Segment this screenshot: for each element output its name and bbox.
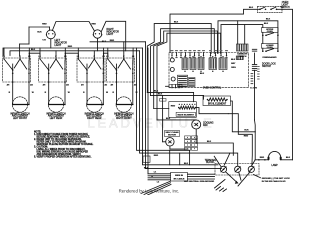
svg-text:DISENGAGED: DISENGAGED [263,56,277,59]
svg-text:W: W [106,92,108,94]
svg-text:GRY: GRY [231,63,236,65]
svg-text:BLK: BLK [31,49,36,51]
wire: riser [28,48,30,56]
wire: S3 to element [86,82,88,105]
svg-text:Y-R: Y-R [42,39,46,41]
pilot circle P3 [171,77,175,81]
svg-text:BLK: BLK [200,73,205,75]
svg-text:RED: RED [154,155,159,157]
lamp: left indicator light [46,30,55,39]
wire: sabbath feed 1 [237,21,239,44]
wire: feed 2 [140,51,238,166]
wire: to cooling fan [157,119,196,121]
svg-text:4G: 4G [104,83,107,86]
svg-text:RED: RED [110,40,115,42]
svg-text:W: W [32,92,34,94]
connector: jumper above box bottom [169,85,182,88]
wire: riser [64,48,66,56]
terminal block (dashed) [215,164,259,176]
wire: riser [93,51,95,56]
svg-text:5. VERIFY PROPER OPERATION AFT: 5. VERIFY PROPER OPERATION AFTER SERVICI… [34,155,92,158]
svg-text:BROIL ELEMENT: BROIL ELEMENT [208,103,227,105]
infinite switch S2 (dashed box) [39,58,67,82]
switch contacts S1 [3,56,5,59]
svg-text:LEFT FRONT: LEFT FRONT [13,118,28,120]
wire: fan to terminal block [196,129,233,155]
wire: cable strand [148,179,171,181]
oven control (dashed box) [169,53,249,88]
pilot circle P1 [170,58,174,62]
wire: fuse chain tail [254,120,257,132]
svg-text:LAMP: LAMP [271,164,278,167]
svg-text:RED: RED [42,24,47,26]
wire: riser [132,48,134,56]
wire: S2 to element [48,82,50,105]
svg-text:4G: 4G [30,83,33,86]
svg-text:WIRE IN: WIRE IN [175,175,184,177]
wire: fuse chain down [254,70,256,120]
cable arrows to ground [226,172,236,182]
wire: lamp2 down to bus [97,39,99,51]
feed diag to lug 1 [224,153,230,165]
svg-text:RED: RED [244,135,249,137]
wire: feed 4 [146,42,222,169]
wire: feed 3 [143,48,219,165]
svg-text:BLK: BLK [249,7,254,9]
surface element E2 (dashed circle) [48,97,63,112]
svg-text:LIGHT: LIGHT [107,34,114,36]
connector: sabbath [237,44,249,51]
wire: S4 to element [116,82,118,105]
svg-text:4G: 4G [66,83,69,86]
terminal id row [171,57,173,58]
door motor M1 [166,138,174,146]
svg-text:W: W [68,92,70,94]
svg-text:OVEN CONTROL: OVEN CONTROL [203,88,222,90]
svg-text:BLK: BLK [184,163,189,165]
wire: loop 3 [151,29,215,96]
box: lower oven [262,44,279,49]
wire: route to terminal block [228,114,252,166]
door lock switch upper [262,35,264,37]
svg-text:OVEN: OVEN [267,31,273,33]
switch contacts S4 [107,56,109,59]
oven lamp DS1 [251,160,255,166]
surface element E4 (dashed circle) [116,97,131,112]
box: wire in BK cable [171,173,188,182]
terminal lug [248,166,254,172]
infinite switch S1 (dashed box) [3,58,31,82]
surface element E1 (dashed circle) [12,97,27,112]
switch contacts S3 [77,56,79,59]
wire: to terminal block [188,178,215,180]
connector: mini block [143,156,150,162]
svg-text:BLK: BLK [207,141,212,143]
switch: oven light switch [258,6,283,12]
wire: riser [77,48,79,56]
infinite switch S4 (dashed box) [107,58,135,82]
wire: cable strand [148,177,171,179]
svg-text:WHT-NEUTRAL GRN-GROUND: WHT-NEUTRAL GRN-GROUND [184,180,215,183]
svg-text:IN THE BX CABLE N GD: IN THE BX CABLE N GD [262,180,286,183]
wire: bake right route [196,108,228,114]
svg-text:BLK: BLK [158,93,163,95]
svg-text:BLK: BLK [264,23,269,25]
box: self clean label [165,131,180,137]
switch contacts S2 [39,56,41,59]
svg-text:SWITCH: SWITCH [262,66,271,68]
wire: bus A [3,48,143,56]
wire: riser [103,48,105,56]
wire: sabbath feed 2 [244,25,246,44]
connector J1 [178,75,188,86]
wire: S1 to element [12,82,14,105]
svg-text:BLK: BLK [266,19,271,21]
wire: motor left [163,141,166,143]
wire: left indicator feed [29,26,50,28]
wire: bus B [10,51,140,56]
svg-text:BLK: BLK [244,129,249,131]
wire: right edge drop [282,9,293,160]
wire: down to lamp row [254,132,256,160]
wire: cable strand [148,175,171,177]
wire: vertical feed [162,95,164,141]
svg-text:BLK: BLK [144,167,149,169]
wire: to terminal block [188,173,215,175]
lamp: right indicator light [93,30,101,38]
wire: loop to door lock left [221,25,263,54]
infinite switch S3 (dashed box) [77,58,105,82]
svg-text:BLK: BLK [174,21,179,23]
wire: loop 4 [154,31,218,109]
cable bundle [141,181,171,193]
broil element R2 [203,96,231,106]
wire: link to lower [262,35,264,43]
connector stack Q1 [185,136,191,139]
wire: motor bottom [170,146,188,149]
wire: riser [3,48,5,56]
wire: drop [179,153,181,165]
svg-text:BLK: BLK [286,157,291,159]
wire: outer loop to oven light switch [170,9,257,52]
thermal fuse chain [254,53,256,64]
box: upper oven assembly [262,28,279,33]
door lock switch [262,50,264,52]
wire: control to broil [151,95,204,99]
terminal lug [220,166,226,172]
svg-text:LEADVENTURE: LEADVENTURE [88,116,215,131]
relay blocks K1-K6 [182,58,188,70]
chassis ground [215,180,226,189]
wire: to terminal block [188,176,215,178]
wire: broil right route [231,101,256,132]
wire: upper-lower link right [277,35,279,50]
svg-text:ORG: ORG [231,67,236,69]
wire: riser [55,51,57,56]
svg-text:LIGHT: LIGHT [55,45,62,47]
wire: loop 2 [147,24,211,93]
svg-text:MOTOR: MOTOR [168,135,176,137]
svg-text:BLOCK-: BLOCK- [206,162,215,164]
svg-text:Rendered by LeadVenture, Inc.: Rendered by LeadVenture, Inc. [119,189,180,194]
cooling fan M2 [192,120,201,129]
control board terminals [171,53,173,57]
bake element R1 [169,102,197,118]
svg-text:RED: RED [260,157,265,159]
svg-text:BLK: BLK [37,32,42,34]
wire: feed 1 [137,48,190,165]
wire: riser [123,42,125,56]
wire: lamp1 down to bus [50,39,52,48]
connector J3 [236,56,243,60]
svg-text:BLK: BLK [154,91,159,93]
box: grn tag [160,99,166,102]
surface element E3 (dashed circle) [87,97,102,112]
svg-text:RED: RED [68,46,73,48]
svg-text:RED: RED [171,105,176,107]
wire: loop to door lock right [218,21,278,54]
svg-text:SWITCH: SWITCH [280,7,289,9]
terminal lug [235,166,241,172]
wire: control to bake [154,108,169,110]
connector J2 [189,78,196,87]
svg-text:RED: RED [92,24,97,26]
wire: lamp2 output to bus drop [101,21,125,51]
svg-text:SWITCH: SWITCH [238,56,247,58]
wire: inter-switch links [29,53,40,56]
svg-text:GROUND (-) THE GRT LOCK: GROUND (-) THE GRT LOCK [262,178,291,180]
wire: drop [169,150,171,165]
wire: loop 5 [157,33,221,120]
wire: cable strand [148,173,171,175]
svg-text:BLK: BLK [231,59,236,61]
svg-text:LEFT REAR: LEFT REAR [50,117,63,120]
wire: relay out [147,92,193,101]
wire: riser [107,48,109,56]
pilot circle P2 [170,68,174,72]
wire: feed 5 [147,48,149,174]
svg-text:17-17B: 17-17B [250,87,257,89]
wire: riser [39,48,41,56]
wire: lamp1 to lamp2 (upper link) [52,22,94,31]
